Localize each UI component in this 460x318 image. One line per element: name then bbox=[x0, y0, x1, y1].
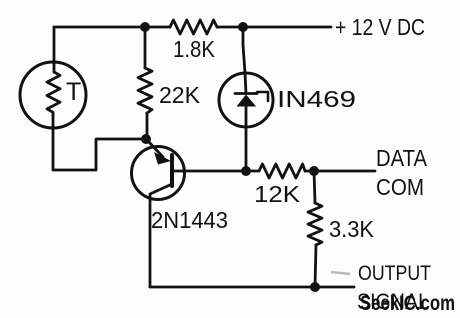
wire base lead to node bbox=[172, 170, 246, 173]
svg-text:IN469: IN469 bbox=[277, 86, 356, 112]
svg-text:12K: 12K bbox=[254, 181, 301, 207]
svg-text:T: T bbox=[66, 78, 81, 106]
wire collector to bottom rail bbox=[149, 198, 152, 287]
junction node data left bbox=[241, 166, 251, 176]
diode D1 triangle bbox=[140, 22, 320, 292]
svg-text:COM: COM bbox=[376, 174, 424, 200]
wire thermistor bottom step to base node bbox=[53, 128, 146, 170]
transistor Q1 2N1443 bbox=[132, 147, 185, 200]
diode D1 1N469 bbox=[219, 73, 273, 127]
wire bottom rail bbox=[150, 286, 354, 289]
junction node data right bbox=[309, 166, 319, 176]
resistor R2 22K bbox=[145, 27, 147, 139]
junction node output bbox=[310, 282, 320, 292]
wire diode bottom lead bbox=[245, 127, 248, 171]
wire thermistor top lead bbox=[53, 27, 56, 63]
resistor R1 1.8K bbox=[170, 20, 217, 34]
transistor Q1 emitter arrow bbox=[154, 152, 171, 165]
svg-text:SIGNAL: SIGNAL bbox=[357, 289, 429, 314]
scan artifact dash bbox=[331, 272, 350, 274]
svg-text:22K: 22K bbox=[159, 82, 201, 108]
wire top rail bbox=[54, 26, 331, 29]
wire diode top lead bbox=[243, 27, 245, 73]
svg-text:OUTPUT: OUTPUT bbox=[358, 262, 431, 285]
junction node top-left bbox=[140, 22, 150, 32]
junction node top-right bbox=[238, 22, 248, 32]
thermistor RT1 bbox=[20, 62, 86, 128]
svg-text:2N1443: 2N1443 bbox=[151, 207, 228, 233]
resistor R3 12K bbox=[259, 164, 305, 178]
svg-text:1.8K: 1.8K bbox=[173, 36, 216, 62]
resistor R4 3.3K bbox=[314, 171, 316, 287]
svg-text:+ 12 V DC: + 12 V DC bbox=[335, 14, 425, 40]
svg-text:DATA: DATA bbox=[376, 145, 428, 171]
svg-text:3.3K: 3.3K bbox=[329, 216, 375, 242]
junction node base bbox=[141, 134, 151, 144]
